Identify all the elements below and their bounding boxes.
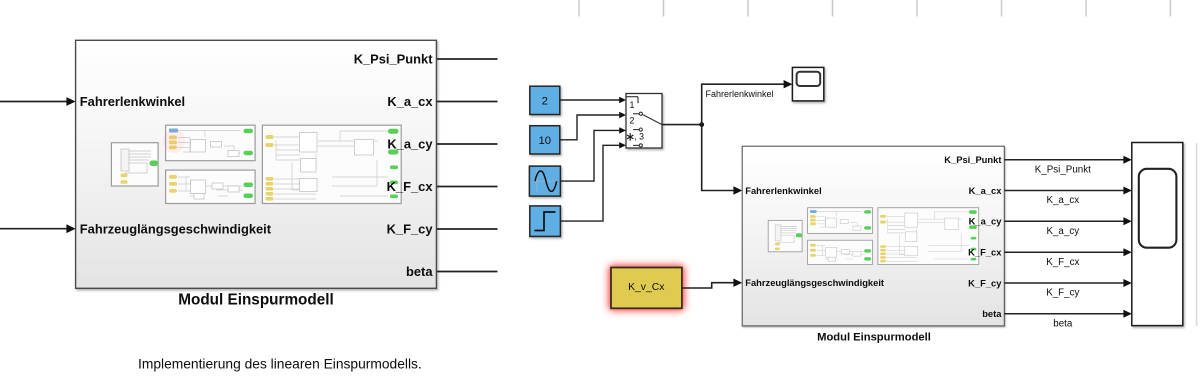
wire from U2 K_a_cx to scope bbox=[1004, 190, 1124, 192]
page ruler tick 6 bbox=[1001, 0, 1003, 17]
junction node bbox=[699, 122, 704, 127]
svg-text:10: 10 bbox=[539, 135, 552, 147]
wire junction to U2 Fahrerlenkwinkel bbox=[702, 125, 735, 191]
svg-text:, 3: , 3 bbox=[634, 132, 644, 142]
wire from U2 K_F_cx to scope bbox=[1004, 251, 1124, 253]
svg-text:Fahrerlenkwinkel: Fahrerlenkwinkel bbox=[706, 89, 774, 99]
wire K_v_Cx to U2 Fahrzeuglaengsgeschwindigkeit bbox=[682, 283, 735, 288]
gain block K_v_Cx (highlighted) bbox=[608, 265, 685, 312]
constant block C2 value 10 bbox=[530, 126, 560, 154]
scope SC2 (tall, 6 inputs) bbox=[1132, 143, 1183, 326]
wire into U1 Fahrerlenkwinkel bbox=[0, 101, 68, 103]
svg-text:K_Psi_Punkt: K_Psi_Punkt bbox=[1035, 165, 1091, 176]
sine wave source block bbox=[529, 166, 560, 196]
svg-text:Modul Einspurmodell: Modul Einspurmodell bbox=[817, 332, 931, 344]
wire step to SW1 port4 bbox=[560, 145, 619, 221]
svg-text:K_F_cy: K_F_cy bbox=[1046, 288, 1079, 299]
svg-text:beta: beta bbox=[1053, 318, 1073, 329]
svg-text:Implementierung des linearen E: Implementierung des linearen Einspurmode… bbox=[138, 357, 422, 372]
wire junction to scope SC1 bbox=[702, 84, 785, 124]
wire from U1 K_Psi_Punkt bbox=[437, 58, 498, 60]
page ruler tick 2 bbox=[663, 0, 665, 17]
svg-text:K_F_cx: K_F_cx bbox=[1046, 257, 1079, 268]
wire sine to SW1 port3 bbox=[560, 130, 619, 181]
wire into U1 Fahrzeuglaengsgeschwindigkeit bbox=[0, 228, 68, 230]
page ruler tick 5 bbox=[916, 0, 918, 17]
wire SW1 output to junction bbox=[662, 124, 702, 126]
svg-text:2: 2 bbox=[630, 116, 635, 126]
svg-text:Modul Einspurmodell: Modul Einspurmodell bbox=[178, 292, 334, 309]
wire from U2 K_a_cy to scope bbox=[1004, 220, 1124, 222]
page ruler tick 1 bbox=[578, 0, 580, 17]
svg-text:1: 1 bbox=[630, 100, 635, 110]
page ruler tick 8 bbox=[1170, 0, 1172, 17]
svg-text:K_a_cx: K_a_cx bbox=[1046, 195, 1079, 206]
page ruler tick 3 bbox=[747, 0, 749, 17]
wire from U1 K_a_cx bbox=[437, 101, 498, 103]
SW1 arm bbox=[643, 115, 663, 125]
svg-text:K_v_Cx: K_v_Cx bbox=[628, 282, 665, 293]
SW1 control stub bbox=[626, 97, 638, 104]
SW1 data stubs and contacts bbox=[633, 113, 639, 115]
partial block edge at right screenshot border bbox=[1196, 143, 1198, 326]
page ruler tick 7 bbox=[1085, 0, 1087, 17]
highlight tinge inside U1 preview P2 bbox=[163, 129, 185, 153]
wire from U1 K_a_cy bbox=[437, 143, 498, 145]
SW1 input arrow port4 bbox=[619, 142, 626, 148]
wire from U1 beta bbox=[437, 271, 498, 273]
page ruler tick 4 bbox=[832, 0, 834, 17]
wire from U1 K_F_cx bbox=[437, 186, 498, 188]
SW1 input arrow port3 bbox=[619, 127, 626, 133]
wire from U1 K_F_cy bbox=[437, 228, 498, 230]
step source block bbox=[530, 206, 561, 237]
wire C1 to SW1 port1 bbox=[560, 99, 620, 101]
multiport switch SW1 bbox=[626, 94, 662, 149]
wire C2 to SW1 port2 bbox=[560, 115, 620, 140]
subsystem U2 Modul Einspurmodell (right, scaled copy) bbox=[742, 146, 1004, 326]
constant block C1 value 2 bbox=[530, 86, 560, 114]
wire from U2 K_F_cy to scope bbox=[1004, 282, 1124, 284]
SW1 input arrow port2 bbox=[619, 112, 626, 118]
wire from U2 K_Psi_Punkt to scope bbox=[1004, 159, 1124, 161]
scope SC1 bbox=[792, 67, 823, 101]
svg-text:K_a_cy: K_a_cy bbox=[1046, 226, 1079, 237]
subsystem U1 Modul Einspurmodell (left, full size) bbox=[76, 40, 437, 288]
SW1 input arrow port1 bbox=[619, 97, 626, 103]
wire from U2 beta to scope bbox=[1004, 313, 1124, 315]
svg-text:2: 2 bbox=[542, 95, 548, 107]
